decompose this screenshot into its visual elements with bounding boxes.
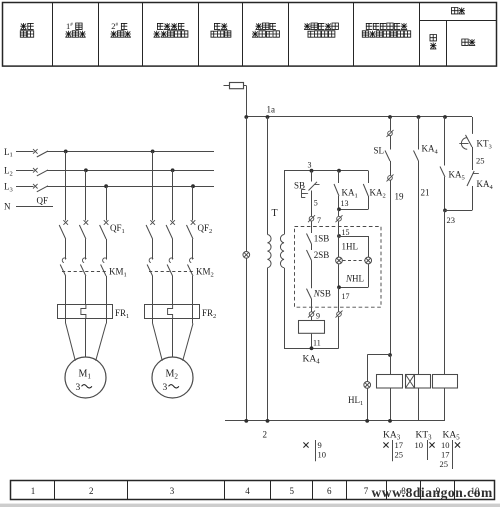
- svg-text:NHL: NHL: [345, 274, 364, 284]
- svg-text:5: 5: [314, 199, 318, 208]
- svg-text:23: 23: [447, 215, 456, 225]
- svg-text:25: 25: [476, 156, 485, 166]
- svg-text:13: 13: [341, 199, 349, 208]
- svg-text:21: 21: [421, 188, 430, 198]
- svg-text:1HL: 1HL: [342, 242, 359, 252]
- svg-text:4: 4: [245, 486, 250, 496]
- svg-text:10: 10: [415, 440, 424, 450]
- svg-text:1: 1: [31, 486, 36, 496]
- svg-text:17: 17: [395, 440, 404, 450]
- svg-text:SL: SL: [374, 146, 385, 156]
- svg-text:25: 25: [440, 459, 449, 469]
- svg-text:7: 7: [364, 486, 369, 496]
- svg-text:1SB: 1SB: [314, 234, 330, 244]
- svg-text:3: 3: [76, 383, 81, 393]
- svg-text:2SB: 2SB: [314, 250, 330, 260]
- svg-text:T: T: [272, 208, 278, 219]
- svg-text:17: 17: [441, 450, 450, 460]
- svg-text:17: 17: [342, 292, 350, 301]
- svg-text:2: 2: [89, 486, 94, 496]
- svg-text:3: 3: [308, 161, 312, 170]
- svg-text:10: 10: [318, 450, 327, 460]
- svg-text:6: 6: [327, 486, 332, 496]
- svg-text:11: 11: [313, 339, 321, 348]
- svg-text:SB: SB: [294, 181, 305, 191]
- svg-text:5: 5: [290, 486, 295, 496]
- svg-text:9: 9: [318, 440, 322, 450]
- svg-text:7: 7: [317, 216, 321, 225]
- svg-text:25: 25: [395, 450, 404, 460]
- svg-text:www.8diangon.com: www.8diangon.com: [372, 485, 494, 500]
- svg-text:3: 3: [170, 486, 175, 496]
- svg-text:9: 9: [316, 312, 320, 321]
- svg-text:15: 15: [342, 228, 350, 237]
- svg-text:N: N: [4, 201, 11, 211]
- svg-text:3: 3: [163, 383, 168, 393]
- svg-text:NSB: NSB: [313, 289, 331, 299]
- svg-text:19: 19: [395, 192, 405, 202]
- svg-text:1a: 1a: [267, 105, 276, 115]
- svg-text:10: 10: [441, 440, 450, 450]
- svg-text:2: 2: [263, 430, 268, 440]
- svg-text:QF: QF: [37, 196, 49, 206]
